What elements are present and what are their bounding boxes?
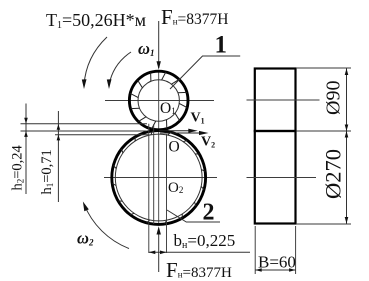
svg-text:O: O <box>169 138 180 155</box>
svg-text:h2=0,24: h2=0,24 <box>10 144 26 190</box>
roller 1 outer rim <box>129 71 188 130</box>
dimension b arrow right <box>160 251 167 255</box>
dimension h1 arrow up A <box>57 124 61 130</box>
svg-text:Ø270: Ø270 <box>321 149 346 199</box>
side view centerline 1 <box>247 99 320 101</box>
vertical centerline <box>158 70 160 225</box>
force arrowhead bottom <box>157 226 161 234</box>
side view roller 2 rectangle <box>255 131 296 224</box>
force line top <box>158 21 160 68</box>
torque curved arrow <box>84 37 107 85</box>
velocity arrow V2 <box>160 132 203 134</box>
dimension h2 line <box>25 104 27 195</box>
extension line bottom <box>296 223 351 225</box>
svg-text:1: 1 <box>215 32 228 59</box>
roller 2 outer rim <box>112 131 206 225</box>
B arrow right <box>289 268 296 272</box>
roller 1 inner rim <box>138 80 179 121</box>
B extension line right <box>295 226 297 274</box>
strip top line A <box>21 123 148 125</box>
label O1 <box>160 102 173 115</box>
svg-text:B=60: B=60 <box>258 253 296 272</box>
omega1 curved arrow <box>109 52 131 85</box>
force line bottom <box>158 233 160 272</box>
roller 2 rim hatching <box>112 131 205 224</box>
velocity arrow V1 <box>159 130 193 132</box>
extension line junction <box>296 130 351 132</box>
B arrow left <box>255 268 262 272</box>
dimension h2 arrow up <box>24 131 28 137</box>
label O contact <box>168 141 180 153</box>
roller 2 centerline horizontal <box>104 177 217 179</box>
leader line part 2 <box>167 210 220 222</box>
svg-text:2: 2 <box>203 199 215 225</box>
label O2 <box>168 180 184 194</box>
roller 1 centerline horizontal <box>105 100 214 102</box>
dimension h1 arrow up C <box>57 135 61 141</box>
roller 1 rim hatching <box>130 72 187 129</box>
dimension b line <box>149 251 250 253</box>
dia270 arrow up <box>345 131 349 138</box>
svg-text:h1=0,71: h1=0,71 <box>39 149 55 194</box>
strip line C <box>55 134 150 136</box>
dia90 arrow up <box>345 69 349 76</box>
dimension h2 arrow down <box>24 118 28 124</box>
dia90 arrow down <box>345 125 349 132</box>
omega2 curved arrow <box>84 204 129 249</box>
force arrowhead top <box>157 61 161 69</box>
leader line part 1 <box>170 56 240 89</box>
svg-text:Ø90: Ø90 <box>323 81 345 115</box>
dimension b arrow left <box>149 251 156 255</box>
B extension line left <box>254 226 256 274</box>
side view centerline 2 <box>247 177 317 179</box>
side view roller 1 rectangle <box>255 69 296 132</box>
contact vertical line mid <box>153 124 155 224</box>
B dimension line <box>255 269 295 271</box>
roller 2 inner rim <box>115 134 202 221</box>
dia270 arrow down <box>345 217 349 224</box>
dimension h1 line <box>57 111 59 202</box>
diameter dimension line <box>346 69 348 224</box>
contact vertical line right <box>166 134 168 253</box>
strip line B <box>21 130 147 132</box>
extension line top <box>296 67 351 69</box>
contact vertical line left <box>148 124 150 253</box>
